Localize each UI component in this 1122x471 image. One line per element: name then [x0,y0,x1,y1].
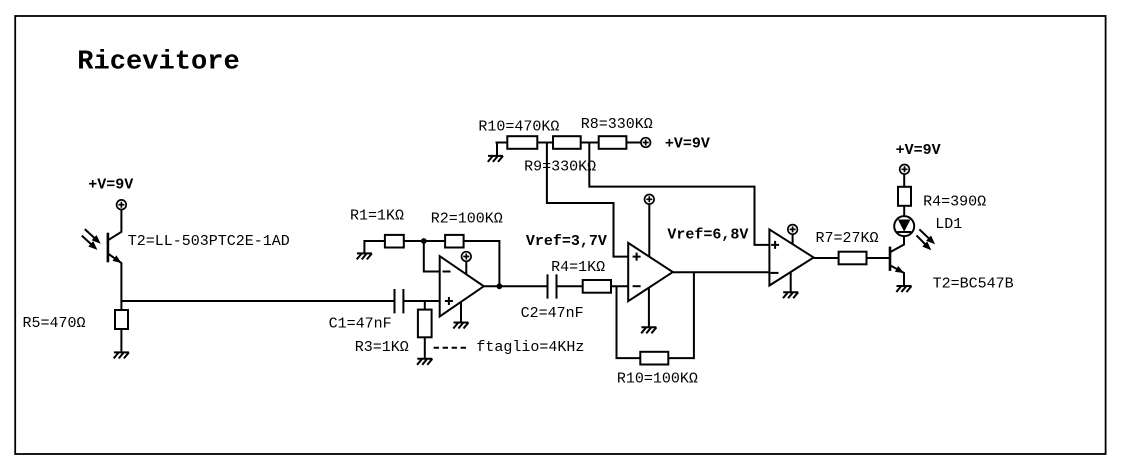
svg-text:R5=470Ω: R5=470Ω [23,315,86,332]
svg-text:R4=1KΩ: R4=1KΩ [551,259,605,276]
svg-text:Ricevitore: Ricevitore [77,47,240,78]
svg-text:+V=9V: +V=9V [88,177,133,194]
svg-text:Vref=6,8V: Vref=6,8V [667,226,748,243]
svg-text:R3=1KΩ: R3=1KΩ [355,339,409,356]
svg-text:R8=330KΩ: R8=330KΩ [581,116,653,133]
svg-text:+V=9V: +V=9V [665,135,710,152]
svg-text:C2=47nF: C2=47nF [521,305,584,322]
svg-text:Vref=3,7V: Vref=3,7V [526,233,607,250]
svg-text:LD1: LD1 [935,216,962,233]
svg-text:R4=390Ω: R4=390Ω [923,193,986,210]
svg-text:R7=27KΩ: R7=27KΩ [816,230,879,247]
svg-text:T2=BC547B: T2=BC547B [933,276,1014,293]
svg-text:R1=1KΩ: R1=1KΩ [350,208,404,225]
svg-text:R9=330KΩ: R9=330KΩ [524,159,596,176]
svg-text:C1=47nF: C1=47nF [329,316,392,333]
svg-text:R10=470KΩ: R10=470KΩ [478,119,559,136]
svg-text:+V=9V: +V=9V [896,142,941,159]
svg-text:ftaglio=4KHz: ftaglio=4KHz [476,339,584,356]
svg-text:R2=100KΩ: R2=100KΩ [431,211,503,228]
svg-text:R10=100KΩ: R10=100KΩ [617,371,698,388]
svg-text:T2=LL-503PTC2E-1AD: T2=LL-503PTC2E-1AD [128,233,290,250]
